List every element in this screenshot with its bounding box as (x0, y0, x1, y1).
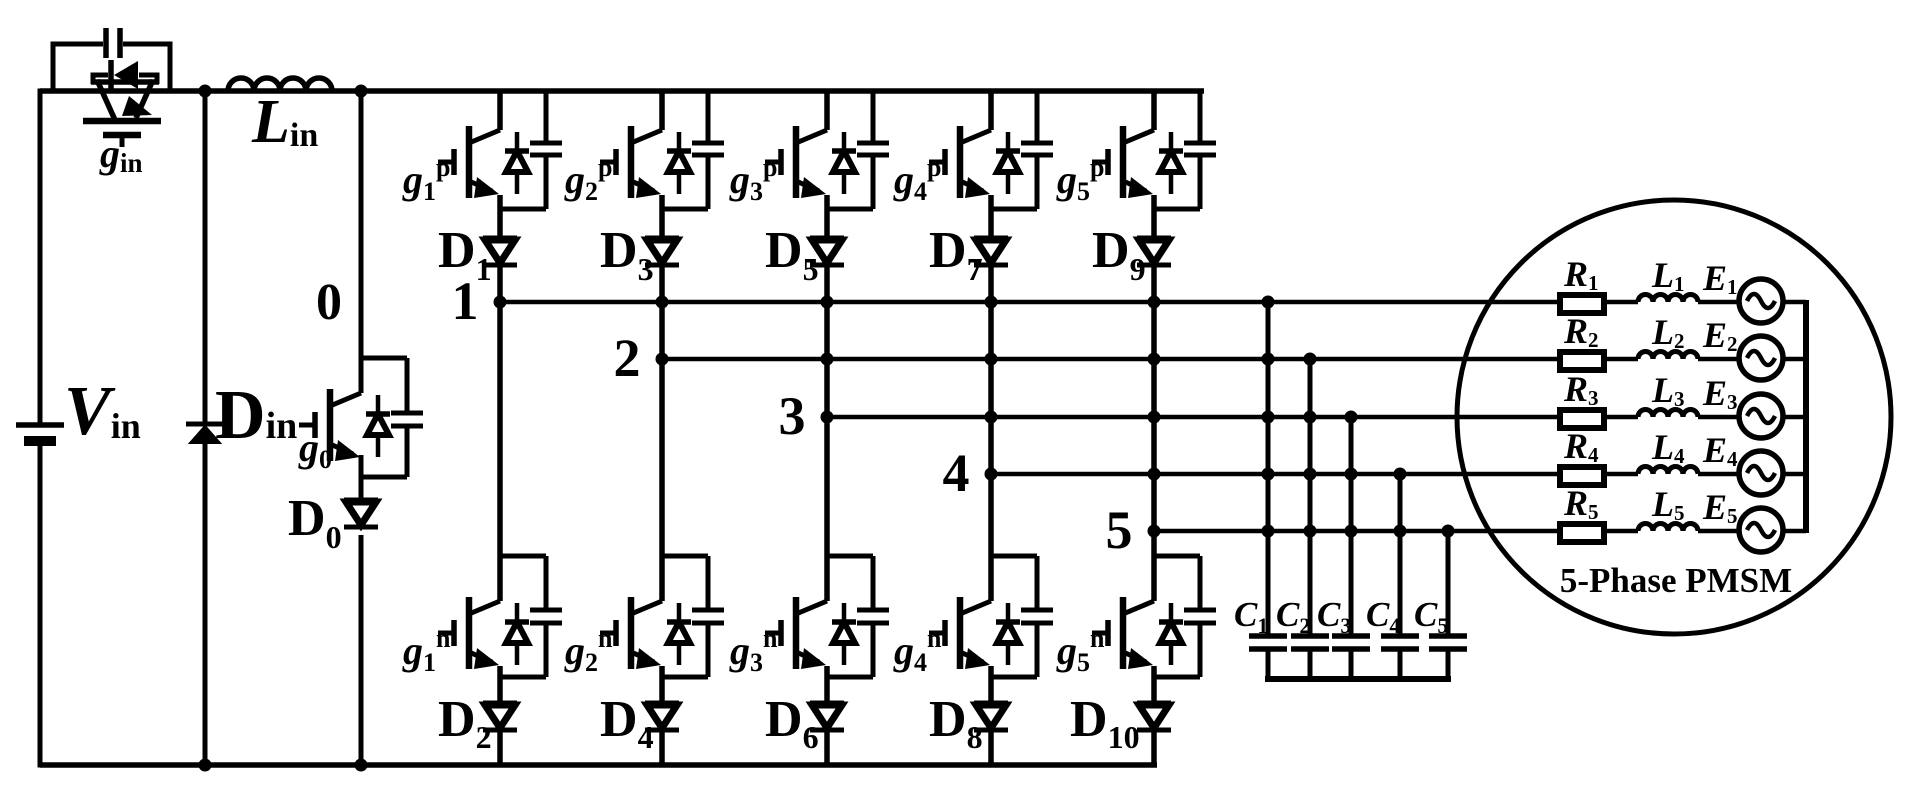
PMSM circle boundary (1457, 200, 1891, 634)
wire E4 to star bus (1783, 472, 1806, 477)
junction dot C2 x row 5 (1304, 525, 1317, 538)
inductor L2 (1638, 352, 1698, 360)
junction dot leg 4 x row 1 (985, 296, 998, 309)
resistor R2 (1560, 352, 1604, 370)
transistor g5n (bottom switch of leg 5) (1123, 601, 1154, 614)
diode D3 (645, 236, 679, 241)
resistor R5 (1560, 524, 1604, 542)
diode D2 (483, 701, 517, 706)
capacitor snubber bottom leg 5 (1154, 554, 1200, 559)
capacitor C5 (1429, 633, 1467, 639)
wire phase line 4 (991, 472, 1560, 477)
battery Vin (16, 422, 64, 428)
transistor g4p (top switch of leg 4) (960, 130, 991, 143)
junction dot C2 x row 2 (1304, 353, 1317, 366)
capacitor snubber bottom leg 2 (662, 554, 708, 559)
junction dot Din top (199, 85, 212, 98)
junction dot C3 x row 4 (1345, 468, 1358, 481)
resistor R4 (1560, 467, 1604, 485)
junction dot leg 3 x row 1 (821, 296, 834, 309)
inductor Lin (228, 78, 332, 91)
capacitor snubber top leg 1 (544, 91, 549, 141)
capacitor snubber bottom leg 3 (827, 554, 873, 559)
wire E2 to star bus (1783, 357, 1806, 362)
diode D4 (645, 701, 679, 706)
svg-text:2: 2 (614, 328, 641, 388)
capacitor snubber of g0 (361, 356, 407, 361)
inductor L5 (1638, 524, 1698, 532)
wire left rail (38, 89, 43, 425)
wire L4 to E4 (1698, 472, 1739, 477)
wire L2 to E2 (1698, 357, 1739, 362)
wire R2 to L2 (1604, 357, 1638, 362)
wire L5 to E5 (1698, 529, 1739, 534)
inductor L1 (1638, 295, 1698, 302)
transistor g5p (top switch of leg 5) (1123, 130, 1154, 143)
ac source E5 (1739, 508, 1783, 552)
transistor gin (GTO body) (91, 79, 159, 85)
wire node-0 branch (359, 91, 364, 393)
diode D8 (974, 701, 1008, 706)
transistor g2p (top switch of leg 2) (631, 130, 662, 143)
svg-text:3: 3 (779, 386, 806, 446)
resistor R3 (1560, 410, 1604, 428)
junction dot C1 x row 2 (1262, 353, 1275, 366)
wire leg 2 vertical (659, 91, 665, 130)
wire leg 5 vertical (1151, 91, 1157, 130)
ac source E2 (1739, 336, 1783, 380)
wire R4 to L4 (1604, 472, 1638, 477)
junction dot C1 x row 1 (1262, 296, 1275, 309)
junction dot C2 x row 3 (1304, 411, 1317, 424)
node 3 junction dot (821, 411, 834, 424)
diode D6 (810, 701, 844, 706)
junction dot C3 x row 5 (1345, 525, 1358, 538)
wire L3 to E3 (1698, 415, 1739, 420)
capacitor snubber top leg 5 (1198, 91, 1203, 141)
capacitor snubber top leg 4 (1035, 91, 1040, 141)
wire capacitor C3 drop (1349, 417, 1354, 636)
svg-text:0: 0 (316, 274, 342, 331)
junction dot C3 x row 3 (1345, 411, 1358, 424)
inductor L3 (1638, 410, 1698, 417)
wire leg 1 vertical (497, 91, 503, 130)
capacitor C2 (1291, 633, 1329, 639)
junction dot leg 5 x row 1 (1148, 296, 1161, 309)
junction dot C1 x row 4 (1262, 468, 1275, 481)
wire phase line 1 (500, 300, 1560, 305)
wire leg 4 vertical (988, 91, 994, 130)
capacitor C3 (1332, 633, 1370, 639)
wire E1 to star bus (1783, 300, 1806, 305)
wire E5 to star bus (1783, 529, 1806, 534)
junction dot C4 x row 5 (1394, 525, 1407, 538)
wire capacitor C4 drop (1398, 474, 1403, 636)
svg-text:5: 5 (1106, 500, 1133, 560)
diode D9 (1137, 236, 1171, 241)
wire bottom rail (40, 762, 1157, 768)
transistor g3p (top switch of leg 3) (796, 130, 827, 143)
junction dot C4 x row 4 (1394, 468, 1407, 481)
wire capacitor C1 drop (1266, 302, 1271, 636)
resistor R1 (1560, 295, 1604, 313)
wire phase line 3 (827, 415, 1560, 420)
transistor g3n (bottom switch of leg 3) (796, 601, 827, 614)
capacitor snubber bottom leg 1 (500, 554, 546, 559)
capacitor C1 (1249, 633, 1287, 639)
wire capacitor C5 drop (1446, 531, 1451, 636)
diode D5 (810, 236, 844, 241)
diode of gin (series, pointing left) (93, 73, 108, 78)
transistor g1n (bottom switch of leg 1) (469, 601, 500, 614)
junction dot C5 x row 5 (1442, 525, 1455, 538)
capacitor C4 (1381, 633, 1419, 639)
ac source E3 (1739, 394, 1783, 438)
node 5 junction dot (1148, 525, 1161, 538)
ac source E4 (1739, 451, 1783, 495)
svg-text:1: 1 (452, 271, 479, 331)
transistor g0 (330, 393, 361, 406)
diode Din (186, 422, 224, 427)
wire R5 to L5 (1604, 529, 1638, 534)
node 2 junction dot (656, 353, 669, 366)
transistor g4n (bottom switch of leg 4) (960, 601, 991, 614)
junction dot node-0 top (355, 85, 368, 98)
wire phase line 5 (1154, 529, 1560, 534)
transistor g1p (top switch of leg 1) (469, 130, 500, 143)
junction dot leg 4 x row 2 (985, 353, 998, 366)
capacitor snubber of gin (53, 42, 103, 47)
diode D1 (483, 236, 517, 241)
junction dot leg 2 x row 1 (656, 296, 669, 309)
wire R3 to L3 (1604, 415, 1638, 420)
wire star point bus (1803, 300, 1809, 533)
junction dot leg 5 x row 2 (1148, 353, 1161, 366)
transistor g2n (bottom switch of leg 2) (631, 601, 662, 614)
junction dot leg 5 x row 3 (1148, 411, 1161, 424)
svg-text:4: 4 (943, 443, 970, 503)
junction dot C1 x row 5 (1262, 525, 1275, 538)
capacitor snubber top leg 3 (871, 91, 876, 141)
wire Din branch (203, 91, 208, 423)
wire R1 to L1 (1604, 300, 1638, 305)
wire capacitor common bus (1265, 676, 1451, 682)
wire top rail (40, 88, 1204, 94)
wire capacitor C2 drop (1308, 359, 1313, 636)
junction dot leg 5 x row 4 (1148, 468, 1161, 481)
junction dot C1 x row 3 (1262, 411, 1275, 424)
junction dot Din bottom (199, 759, 212, 772)
ac source E1 (1739, 279, 1783, 323)
node 4 junction dot (985, 468, 998, 481)
junction dot leg 3 x row 2 (821, 353, 834, 366)
capacitor snubber top leg 2 (706, 91, 711, 141)
diode D7 (974, 236, 1008, 241)
capacitor snubber bottom leg 4 (991, 554, 1037, 559)
inductor L4 (1638, 467, 1698, 474)
wire leg 3 vertical (824, 91, 830, 130)
wire phase line 2 (662, 357, 1560, 362)
diode D0 (344, 498, 378, 503)
junction dot node-0 bottom (355, 759, 368, 772)
junction dot C2 x row 4 (1304, 468, 1317, 481)
wire E3 to star bus (1783, 415, 1806, 420)
svg-text:5-Phase PMSM: 5-Phase PMSM (1560, 561, 1792, 600)
wire L1 to E1 (1698, 300, 1739, 305)
diode D10 (1137, 701, 1171, 706)
node 1 junction dot (494, 296, 507, 309)
junction dot leg 4 x row 3 (985, 411, 998, 424)
